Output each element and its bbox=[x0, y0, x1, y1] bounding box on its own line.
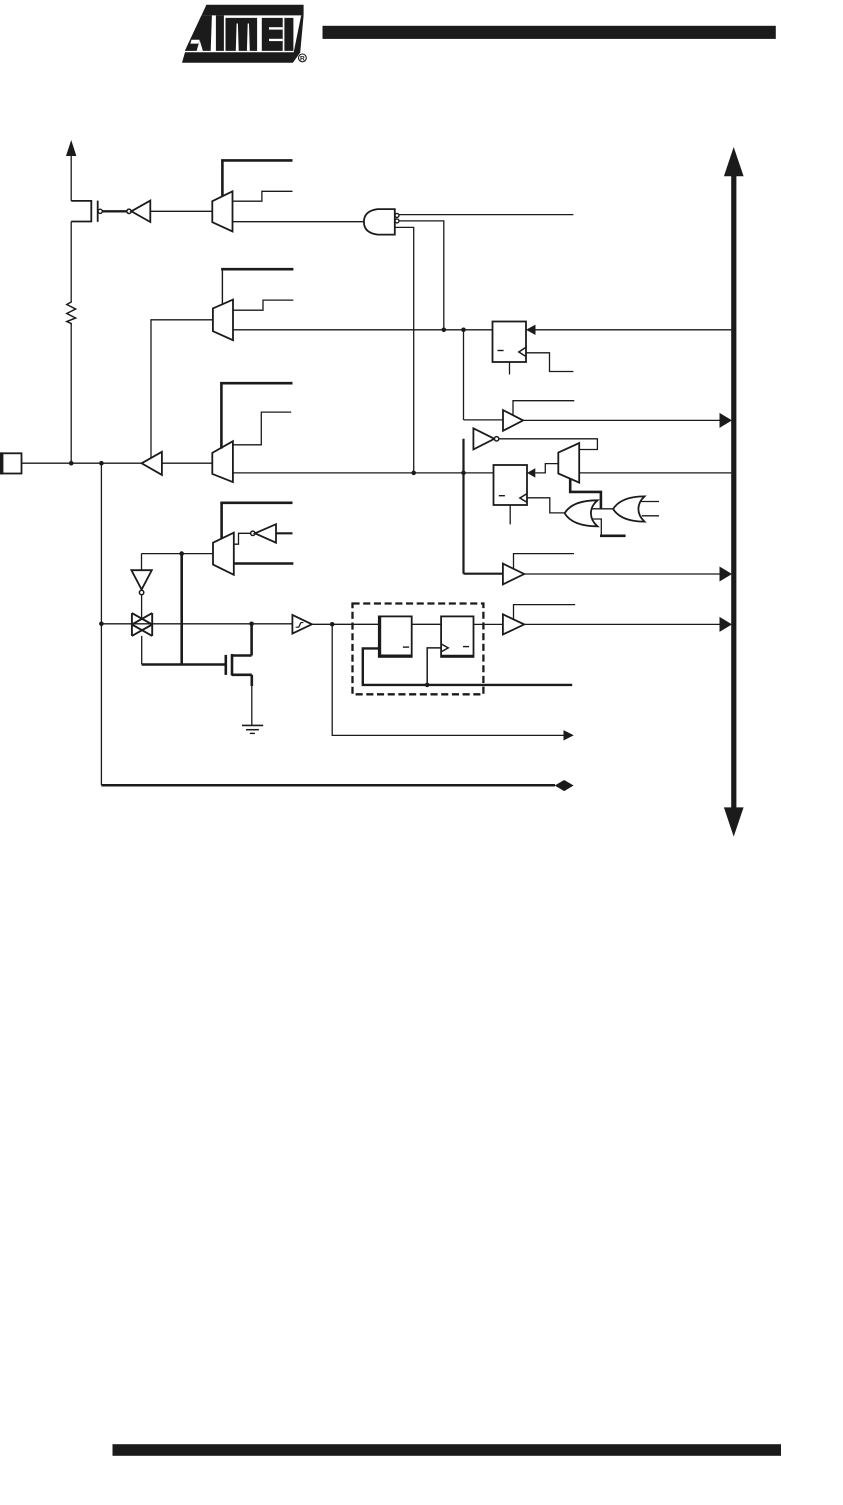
svg-text:R: R bbox=[300, 55, 305, 62]
